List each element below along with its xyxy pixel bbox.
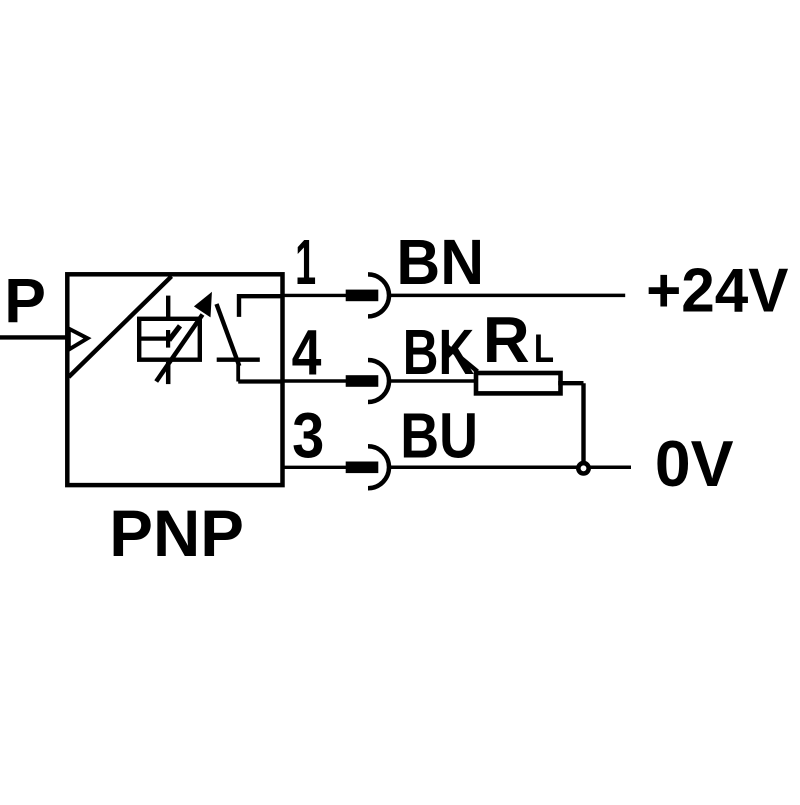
label RL leader line [446, 346, 478, 372]
pin 3 socket arc [368, 446, 389, 488]
node adjustment arrowhead [196, 294, 211, 316]
svg-text:4: 4 [292, 317, 322, 389]
svg-text:R: R [483, 303, 530, 376]
wire comparator input [141, 337, 169, 341]
pin 1 socket arc [368, 274, 389, 316]
wire stem above setpoint box [166, 296, 170, 318]
pin 3 plug [346, 462, 379, 474]
node adjustment arrow shaft [156, 315, 202, 382]
node junction [578, 463, 588, 473]
wire drop to 0V [581, 383, 585, 466]
node comparator bar [166, 330, 170, 348]
wire vent stub below setpoint box [166, 362, 171, 384]
svg-text:BK: BK [403, 317, 474, 389]
svg-text:3: 3 [292, 400, 324, 471]
wire P input [0, 335, 67, 339]
setpoint unit box [139, 319, 200, 360]
wire pin3 lead [282, 466, 346, 469]
node P input arrowhead [69, 329, 88, 350]
wire pin1 lead [282, 294, 346, 297]
piston diagonal [69, 276, 172, 377]
wire BN to +24V [391, 294, 625, 298]
pin 4 plug [346, 375, 379, 387]
svg-text:PNP: PNP [109, 496, 244, 570]
wire resistor to drop [558, 381, 583, 385]
resistor RL [476, 373, 561, 393]
node comparator arrow [169, 326, 180, 340]
svg-text:BU: BU [400, 399, 478, 472]
sensor body U1 [67, 274, 282, 485]
svg-text:L: L [534, 326, 554, 371]
switch S1 arm [217, 304, 240, 366]
pin 1 plug [346, 290, 379, 302]
wire line4 inside box [238, 379, 282, 383]
svg-text:0V: 0V [655, 427, 734, 500]
switch S1 rail [217, 358, 260, 362]
wire pin4 lead [282, 379, 346, 382]
wire BK to resistor [391, 379, 474, 383]
pin 4 socket arc [368, 360, 389, 402]
svg-text:+24V: +24V [646, 256, 789, 325]
wire BU to 0V [391, 466, 631, 470]
svg-text:BN: BN [396, 228, 484, 299]
svg-text:P: P [4, 266, 46, 336]
wire switch output drop [236, 360, 240, 382]
svg-text:1: 1 [295, 227, 316, 299]
switch S1 upper contact [239, 296, 282, 317]
